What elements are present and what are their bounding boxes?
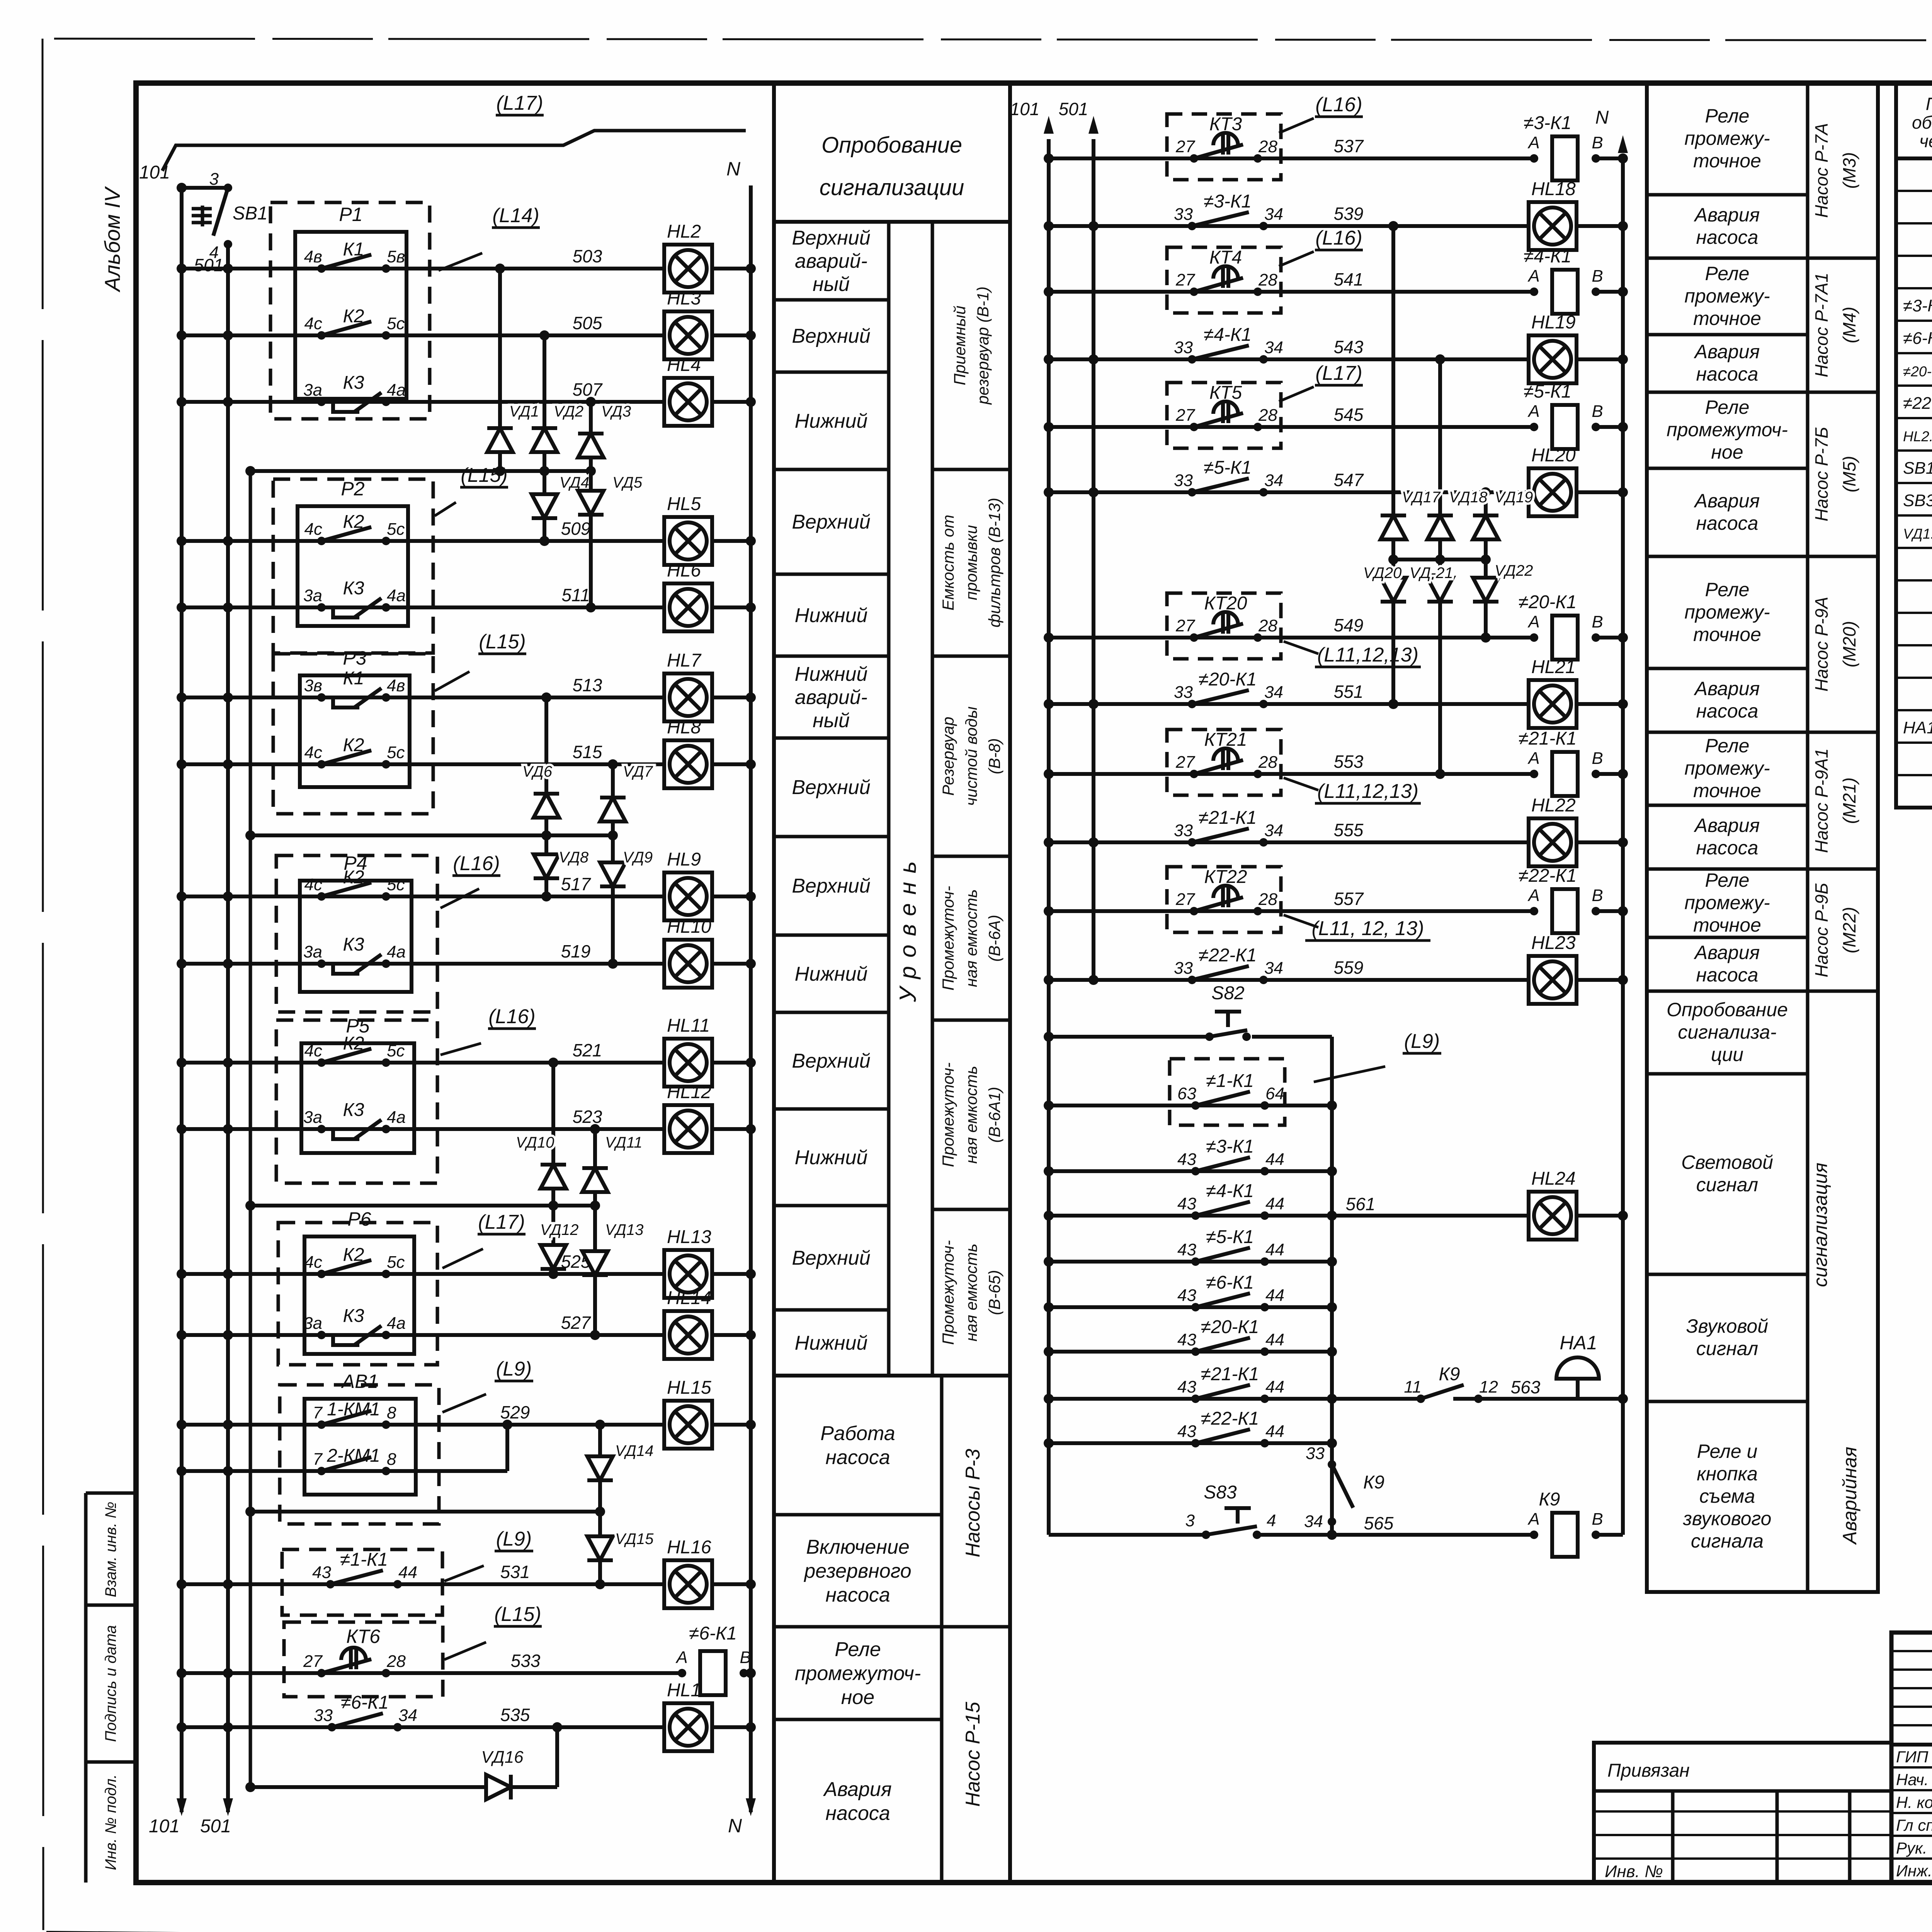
svg-text:точное: точное bbox=[1693, 150, 1761, 172]
node 3 of SB1 bbox=[224, 184, 232, 192]
svg-text:515: 515 bbox=[573, 742, 602, 762]
svg-text:VД16: VД16 bbox=[481, 1748, 524, 1767]
lamp HL7 bbox=[664, 650, 712, 721]
svg-text:(L16): (L16) bbox=[453, 852, 500, 875]
junction A on 551 bbox=[1388, 699, 1398, 709]
wire rung 519 lamp to N bbox=[711, 962, 751, 966]
right column alarm group top bbox=[1808, 990, 1878, 993]
svg-text:К3: К3 bbox=[343, 1100, 364, 1120]
cable marker (L16) at КТ4 bbox=[1279, 227, 1363, 266]
wire coil ≠3-К1 to N bbox=[1596, 156, 1623, 160]
svg-text:съема: съема bbox=[1699, 1485, 1755, 1507]
cable marker (L15) at Р2 bbox=[435, 464, 508, 516]
wire coil ≠22-К1 to N bbox=[1596, 909, 1623, 913]
junction 543 on bus 101 bbox=[1044, 354, 1054, 364]
relay coil ≠21-К1 bbox=[1519, 728, 1603, 796]
svg-text:АВ1: АВ1 bbox=[341, 1371, 379, 1392]
junction rung 511 on bus N bbox=[746, 602, 756, 612]
svg-text:Нижний: Нижний bbox=[795, 663, 868, 685]
svg-text:7: 7 bbox=[313, 1403, 323, 1422]
junction ≠1-К1 on collector bbox=[1327, 1100, 1337, 1111]
cable marker (L16) at Р5 bbox=[440, 1005, 536, 1055]
svg-text:≠1-К1: ≠1-К1 bbox=[1206, 1071, 1254, 1091]
svg-text:34: 34 bbox=[1264, 338, 1283, 357]
diode VД7 bbox=[600, 763, 653, 835]
junction C on 547 bbox=[1481, 487, 1491, 497]
contact ≠1-К1 (43-44) bbox=[312, 1549, 417, 1588]
diode VД2 bbox=[532, 403, 583, 471]
svg-text:промежу-: промежу- bbox=[1684, 892, 1770, 913]
junction rung 527 on bus 501 bbox=[223, 1330, 233, 1340]
svg-text:ный: ный bbox=[813, 709, 850, 732]
svg-text:4в: 4в bbox=[304, 247, 322, 266]
svg-text:HL10: HL10 bbox=[667, 917, 711, 937]
svg-text:549: 549 bbox=[1334, 615, 1364, 635]
wire lamp HL23 to N bbox=[1575, 978, 1623, 982]
svg-text:≠3-К1: ≠3-К1 bbox=[1524, 113, 1571, 133]
contact ≠6-К1 (33-34) bbox=[314, 1692, 417, 1731]
svg-text:В: В bbox=[1592, 1510, 1603, 1529]
junction rung 509 on bus 101 bbox=[177, 536, 187, 546]
junction rung 525 on bus N bbox=[746, 1269, 756, 1279]
svg-text:559: 559 bbox=[1334, 957, 1364, 978]
svg-text:VД14: VД14 bbox=[615, 1442, 653, 1459]
wire diode branch A bbox=[1391, 226, 1395, 704]
level cell divider 9 bbox=[774, 1011, 889, 1014]
parts table row line 7 bbox=[1896, 384, 1932, 387]
junction rung 521 on bus N bbox=[746, 1058, 756, 1068]
svg-text:А: А bbox=[1527, 133, 1539, 152]
junction rung 529 on bus N bbox=[746, 1420, 756, 1430]
svg-text:точное: точное bbox=[1693, 308, 1761, 329]
relay Р2 body bbox=[298, 506, 408, 626]
svg-text:фильтров (В-13): фильтров (В-13) bbox=[985, 498, 1003, 628]
svg-text:27: 27 bbox=[1175, 890, 1195, 909]
wire coil ≠20-К1 to N bbox=[1596, 636, 1623, 639]
time relay КТ22 dashed enclosure bbox=[1167, 867, 1281, 932]
title block outer box bbox=[1891, 1633, 1932, 1883]
svg-text:541: 541 bbox=[1334, 269, 1364, 289]
junction rung 525 on bus 501 bbox=[223, 1269, 233, 1279]
svg-text:44: 44 bbox=[1265, 1330, 1284, 1349]
junction VД14 on 529 bbox=[595, 1420, 605, 1430]
svg-text:5с: 5с bbox=[387, 1041, 405, 1060]
right column divider 8 bbox=[1647, 731, 1808, 734]
svg-text:Насос Р-9А1: Насос Р-9А1 bbox=[1811, 748, 1832, 853]
svg-text:Альбом IV: Альбом IV bbox=[100, 186, 124, 293]
time relay КТ6 dashed enclosure bbox=[284, 1622, 443, 1697]
svg-text:Промежуточ-: Промежуточ- bbox=[939, 1063, 957, 1167]
right column divider 12 bbox=[1647, 990, 1808, 993]
wire HL24 to N bbox=[1575, 1214, 1623, 1218]
wire cascade rung ≠1-К1 bbox=[1049, 1104, 1332, 1107]
svg-text:HL16: HL16 bbox=[667, 1537, 711, 1558]
svg-text:Нижний: Нижний bbox=[795, 410, 868, 432]
lamp HL12 bbox=[664, 1082, 712, 1153]
wire bus 501 (left) bbox=[226, 244, 230, 1812]
svg-text:34: 34 bbox=[1264, 205, 1283, 224]
svg-text:К3: К3 bbox=[343, 372, 364, 393]
svg-text:насоса: насоса bbox=[1696, 512, 1759, 534]
svg-text:(М21): (М21) bbox=[1839, 777, 1859, 824]
svg-text:промежу-: промежу- bbox=[1684, 601, 1770, 623]
svg-text:Опробование: Опробование bbox=[1667, 999, 1788, 1020]
svg-text:Авария: Авария bbox=[1694, 490, 1760, 512]
wire rung 505 lamp to N bbox=[711, 333, 751, 337]
junction 555 on bus N bbox=[1618, 837, 1628, 847]
svg-text:8: 8 bbox=[387, 1450, 396, 1469]
wire rung 553 bbox=[1049, 772, 1534, 776]
junction B on 553 bbox=[1435, 769, 1445, 779]
name row line 5 bbox=[1891, 1857, 1932, 1860]
level cell divider 2 bbox=[774, 371, 889, 374]
junction rung 513 on bus 501 bbox=[223, 692, 233, 702]
svg-text:Аварийная: Аварийная bbox=[1839, 1447, 1861, 1545]
level cell divider 6 bbox=[774, 736, 889, 740]
side column line bbox=[84, 1493, 88, 1883]
diode VД14 bbox=[587, 1425, 653, 1512]
contact Р1.К2 (4c-5c) bbox=[304, 306, 405, 340]
svg-text:промежу-: промежу- bbox=[1684, 285, 1770, 307]
svg-text:34: 34 bbox=[1264, 683, 1283, 702]
svg-text:К3: К3 bbox=[343, 578, 364, 599]
contact ≠4-К1 (33-34) bbox=[1174, 325, 1283, 364]
svg-text:Авария: Авария bbox=[1694, 678, 1760, 699]
svg-text:кнопка: кнопка bbox=[1697, 1463, 1758, 1485]
wire rung 517 bbox=[182, 895, 665, 898]
junction 547 on bus 101 bbox=[1044, 487, 1054, 497]
lamp HL3 bbox=[664, 288, 712, 359]
cable marker (L15) at Р3 bbox=[435, 631, 526, 691]
svg-text:503: 503 bbox=[573, 246, 602, 266]
wire cascade rung ≠6-К1 bbox=[1049, 1305, 1332, 1309]
wire drop 503 to diode line bbox=[498, 269, 502, 471]
junction rung 511 on bus 101 bbox=[177, 602, 187, 612]
junction 557 on bus N bbox=[1618, 906, 1628, 916]
svg-text:Насос Р-9Б: Насос Р-9Б bbox=[1811, 883, 1832, 978]
pump cell divider 2 bbox=[774, 1625, 942, 1629]
svg-text:≠3-К1..: ≠3-К1.. bbox=[1903, 296, 1932, 315]
junction on bus 101 bbox=[177, 183, 187, 193]
svg-text:(М20): (М20) bbox=[1839, 621, 1859, 667]
junction ≠3-К1 on collector bbox=[1327, 1166, 1337, 1176]
pumps subcolumn divider bbox=[940, 1376, 944, 1883]
junction rung 517 on bus 501 bbox=[223, 891, 233, 901]
svg-text:63: 63 bbox=[1177, 1084, 1196, 1103]
wire cascade rung ≠22-К1 bbox=[1049, 1441, 1332, 1445]
lamp HL4 bbox=[664, 355, 712, 426]
wire jog 101 to SB1 bbox=[182, 186, 228, 190]
svg-text:насоса: насоса bbox=[1696, 964, 1759, 986]
wire rung 535 bbox=[182, 1725, 665, 1729]
parts table row line 5 bbox=[1896, 320, 1932, 322]
junction 555 on bus 101 bbox=[1044, 837, 1054, 847]
wire rung 545 bbox=[1049, 425, 1534, 429]
right column divider 7 bbox=[1647, 667, 1808, 670]
parts table row line 13 bbox=[1896, 579, 1932, 582]
junction A on 539 bbox=[1388, 221, 1398, 231]
diode VД21 bbox=[1410, 560, 1453, 619]
contact Р6.К3 bbox=[303, 1306, 406, 1345]
svg-text:507: 507 bbox=[573, 379, 603, 400]
svg-text:чение: чение bbox=[1919, 131, 1932, 151]
parts table header bottom bbox=[1896, 156, 1932, 160]
junction riser on 529 bbox=[502, 1420, 512, 1430]
junction rung 533 on bus N bbox=[746, 1668, 756, 1678]
contact Р4.К3 bbox=[303, 934, 406, 974]
svg-text:К2: К2 bbox=[343, 1033, 364, 1054]
pump group divider 5 bbox=[1808, 867, 1878, 871]
junction 551 on bus 501 bbox=[1088, 699, 1099, 709]
svg-text:А: А bbox=[1527, 886, 1539, 905]
svg-text:≠21-К1: ≠21-К1 bbox=[1201, 1364, 1259, 1384]
junction 547 on bus 501 bbox=[1088, 487, 1099, 497]
svg-text:Нижний: Нижний bbox=[795, 604, 868, 627]
wire rung 535 lamp to N bbox=[711, 1725, 751, 1729]
lamp HL16 bbox=[664, 1537, 712, 1608]
svg-text:Инж.: Инж. bbox=[1896, 1862, 1932, 1880]
svg-text:(В-6А1): (В-6А1) bbox=[985, 1087, 1003, 1143]
wire bus N (middle) bbox=[1621, 158, 1625, 1535]
svg-text:≠6-К1, К9: ≠6-К1, К9 bbox=[1903, 329, 1932, 348]
svg-text:(В-65): (В-65) bbox=[985, 1270, 1003, 1315]
level cell divider 10 bbox=[774, 1107, 889, 1111]
contact Р3.К1 (38-48) bbox=[304, 668, 405, 707]
svg-text:S83: S83 bbox=[1204, 1482, 1237, 1503]
junction rung 531 on bus 501 bbox=[223, 1579, 233, 1589]
svg-text:К2: К2 bbox=[343, 306, 364, 327]
svg-text:Реле и: Реле и bbox=[1697, 1440, 1758, 1462]
svg-text:В: В bbox=[1592, 886, 1603, 905]
svg-text:Реле: Реле bbox=[1705, 869, 1750, 891]
junction 549 on bus 101 bbox=[1044, 633, 1054, 643]
contact ≠1-К1 bbox=[1177, 1071, 1284, 1110]
junction rung 535 on bus 501 bbox=[223, 1722, 233, 1732]
junction rung 527 on bus N bbox=[746, 1330, 756, 1340]
svg-text:34: 34 bbox=[1264, 471, 1283, 490]
wire rung 539 bbox=[1049, 224, 1530, 228]
diode VД4 bbox=[532, 471, 589, 541]
right column divider 9 bbox=[1647, 804, 1808, 807]
junction 555 on bus 501 bbox=[1088, 837, 1099, 847]
svg-text:≠4-К1: ≠4-К1 bbox=[1206, 1181, 1254, 1201]
svg-text:≠6-К1: ≠6-К1 bbox=[689, 1623, 737, 1644]
svg-text:Инв. № подл.: Инв. № подл. bbox=[102, 1774, 119, 1870]
cable marker (L11,12,13) at КТ21 bbox=[1284, 778, 1421, 803]
svg-text:34: 34 bbox=[1304, 1512, 1323, 1531]
relay Р6 dashed enclosure bbox=[278, 1223, 437, 1365]
svg-text:(L11,12,13): (L11,12,13) bbox=[1317, 644, 1418, 666]
junction rung 515 on bus 101 bbox=[177, 759, 187, 769]
svg-text:К3: К3 bbox=[343, 1306, 364, 1326]
svg-text:Реле: Реле bbox=[835, 1638, 881, 1661]
label column header bottom bbox=[774, 220, 1010, 224]
right column divider 5 bbox=[1647, 467, 1808, 470]
svg-text:Верхний: Верхний bbox=[792, 1247, 870, 1269]
svg-text:565: 565 bbox=[1364, 1513, 1394, 1533]
wire bus N (left) bbox=[749, 185, 753, 1812]
wire rung 521 bbox=[182, 1061, 665, 1065]
relay Р3 body bbox=[300, 675, 410, 787]
svg-text:HL2...HL24: HL2...HL24 bbox=[1903, 429, 1932, 444]
wire diode collector line y1219 bbox=[250, 469, 591, 473]
svg-text:К9: К9 bbox=[1539, 1489, 1560, 1510]
wire 563 to N bbox=[1478, 1397, 1623, 1401]
svg-text:точное: точное bbox=[1693, 914, 1761, 936]
junction rung 529 on bus 501 bbox=[223, 1420, 233, 1430]
wire rung 527 bbox=[182, 1333, 665, 1337]
junction rung 509 on bus N bbox=[746, 536, 756, 546]
cable marker (L14) at Р1 bbox=[439, 204, 540, 270]
parts table row line 9 bbox=[1896, 449, 1932, 452]
wire rung 503 lamp to N bbox=[711, 267, 751, 270]
svg-text:≠20-К1: ≠20-К1 bbox=[1201, 1317, 1259, 1337]
pump group divider 4 bbox=[1808, 731, 1878, 734]
svg-text:В: В bbox=[740, 1648, 751, 1667]
right column divider 3 bbox=[1647, 333, 1808, 337]
label column outer box bbox=[774, 83, 1010, 1883]
contact КТ21 (27-28) bbox=[1175, 748, 1277, 778]
svg-text:Насос Р-7А1: Насос Р-7А1 bbox=[1811, 272, 1832, 377]
svg-text:К3: К3 bbox=[343, 934, 364, 955]
svg-text:Авария: Авария bbox=[823, 1778, 891, 1801]
wire rung 515 bbox=[182, 762, 665, 766]
svg-text:3а: 3а bbox=[303, 586, 322, 605]
lamp HL9 bbox=[664, 849, 712, 920]
wire cascade rung ≠4-К1 bbox=[1049, 1214, 1332, 1218]
wire rung 527 lamp to N bbox=[711, 1333, 751, 1337]
junction ≠4-К1 on bus 101 bbox=[1044, 1211, 1054, 1221]
right column divider 15 bbox=[1647, 1400, 1808, 1403]
svg-text:27: 27 bbox=[1175, 270, 1195, 289]
wire lamp HL21 to N bbox=[1575, 702, 1623, 706]
svg-text:551: 551 bbox=[1334, 682, 1364, 702]
junction ≠5-К1 on bus 101 bbox=[1044, 1257, 1054, 1267]
title block main divider bbox=[1891, 1743, 1932, 1747]
relay Р5 body bbox=[301, 1043, 414, 1153]
svg-text:Верхний: Верхний bbox=[792, 875, 870, 897]
wire drop 507 to diode line bbox=[589, 402, 593, 471]
diode VД18 bbox=[1427, 489, 1488, 549]
diode VД16 bbox=[481, 1748, 524, 1799]
right column divider 6 bbox=[1647, 555, 1808, 558]
svg-text:(L16): (L16) bbox=[1315, 227, 1362, 249]
svg-text:VД1: VД1 bbox=[509, 403, 539, 420]
contact Р1.К1 (48-58) bbox=[304, 239, 405, 273]
junction 543 on bus 501 bbox=[1088, 354, 1099, 364]
wire diode branch B bbox=[1438, 359, 1442, 774]
relay АВ1 body bbox=[304, 1399, 416, 1495]
wire rung 513 lamp to N bbox=[711, 696, 751, 699]
svg-text:Верхний: Верхний bbox=[792, 1050, 870, 1072]
wire cascade rung ≠21-К1 bbox=[1049, 1397, 1332, 1401]
svg-text:сигнализация: сигнализация bbox=[1810, 1163, 1831, 1287]
svg-text:44: 44 bbox=[1265, 1422, 1284, 1441]
wire drop 515 bbox=[611, 764, 615, 835]
svg-text:промежу-: промежу- bbox=[1684, 757, 1770, 779]
junction rung 521 on bus 501 bbox=[223, 1058, 233, 1068]
contact ≠4-К1 bbox=[1177, 1181, 1284, 1220]
contact КТ22 (27-28) bbox=[1175, 886, 1277, 915]
pump group divider 3 bbox=[1808, 555, 1878, 558]
svg-text:≠3-К1: ≠3-К1 bbox=[1204, 191, 1252, 212]
svg-text:43: 43 bbox=[1177, 1194, 1196, 1213]
svg-text:Нижний: Нижний bbox=[795, 1146, 868, 1169]
diode VД20 bbox=[1363, 560, 1406, 619]
svg-text:(L17): (L17) bbox=[478, 1211, 525, 1233]
wire rung 511 bbox=[182, 605, 665, 609]
svg-text:К9: К9 bbox=[1439, 1364, 1460, 1384]
svg-text:101: 101 bbox=[1010, 99, 1040, 119]
wire rung 549 bbox=[1049, 636, 1534, 639]
svg-text:ГИП: ГИП bbox=[1896, 1748, 1929, 1766]
svg-text:НА1: НА1 bbox=[1560, 1332, 1597, 1354]
svg-text:VД17: VД17 bbox=[1402, 489, 1441, 506]
svg-text:≠6-К1: ≠6-К1 bbox=[341, 1692, 389, 1713]
wire rung 537 bbox=[1049, 156, 1534, 160]
cable marker (L9) middle bbox=[1314, 1030, 1441, 1082]
svg-text:VД22: VД22 bbox=[1495, 562, 1533, 579]
cable marker (L16) at Р4 bbox=[440, 852, 500, 908]
title block thin row 4 bbox=[1891, 1724, 1932, 1726]
svg-text:VД13: VД13 bbox=[605, 1221, 643, 1238]
junction 557 on bus 101 bbox=[1044, 906, 1054, 916]
right label column divider bbox=[1806, 83, 1810, 1592]
svg-text:Подпись и дата: Подпись и дата bbox=[102, 1625, 119, 1742]
svg-text:5с: 5с bbox=[387, 875, 405, 894]
junction 541 on bus N bbox=[1618, 287, 1628, 297]
wire rung 529 lamp to N bbox=[711, 1423, 751, 1427]
svg-text:HL19: HL19 bbox=[1531, 312, 1576, 333]
svg-text:43: 43 bbox=[1177, 1422, 1196, 1441]
svg-text:34: 34 bbox=[398, 1706, 417, 1725]
contact ≠20-К1 bbox=[1177, 1317, 1284, 1356]
junction ≠21-К1 on collector bbox=[1327, 1394, 1337, 1404]
svg-text:1-КМ1: 1-КМ1 bbox=[327, 1399, 380, 1420]
svg-text:VД5: VД5 bbox=[612, 474, 643, 491]
wire rung 529 bbox=[182, 1423, 665, 1427]
time relay КТ5 dashed enclosure bbox=[1167, 383, 1281, 448]
junction 545 on bus 101 bbox=[1044, 422, 1054, 432]
svg-text:НА1: НА1 bbox=[1903, 718, 1932, 737]
attachment row 2 bbox=[1594, 1834, 1891, 1836]
wire lamp HL18 to N bbox=[1575, 224, 1623, 228]
svg-text:Инв. №: Инв. № bbox=[1605, 1862, 1663, 1881]
contact К9 (33-34) bbox=[1304, 1444, 1384, 1531]
lamp HL21 bbox=[1529, 657, 1577, 728]
svg-text:Верхний: Верхний bbox=[792, 776, 870, 799]
contact КТ3 (27-28) bbox=[1175, 133, 1277, 163]
wire coil ≠4-К1 to N bbox=[1596, 290, 1623, 294]
svg-text:насоса: насоса bbox=[825, 1584, 890, 1606]
svg-text:VД1...VД22: VД1...VД22 bbox=[1903, 526, 1932, 542]
svg-text:звукового: звукового bbox=[1683, 1508, 1772, 1529]
svg-text:Р1: Р1 bbox=[339, 204, 362, 225]
right label column outer box bbox=[1647, 83, 1878, 1592]
cable marker (L16) at КТ3 bbox=[1279, 94, 1363, 133]
wire rung 2-КМ1 bbox=[182, 1469, 416, 1473]
diode VД3 bbox=[578, 403, 631, 471]
lamp HL15 bbox=[664, 1378, 712, 1449]
wire coil ≠6-К1 to N bbox=[744, 1671, 751, 1675]
contact Р5.К3 bbox=[303, 1100, 406, 1139]
svg-text:промывки: промывки bbox=[962, 525, 980, 600]
svg-text:529: 529 bbox=[500, 1402, 530, 1422]
relay coil ≠4-К1 bbox=[1524, 246, 1603, 314]
pump cell divider 3 bbox=[774, 1718, 942, 1721]
parts table row line 3 bbox=[1896, 255, 1932, 257]
parts table outer box bbox=[1896, 83, 1932, 808]
